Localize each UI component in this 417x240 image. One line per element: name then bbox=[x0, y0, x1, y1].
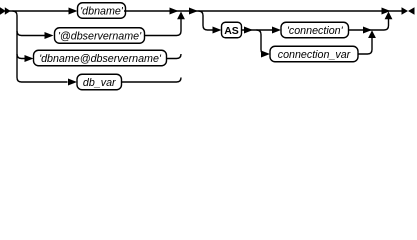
terminal 'dbname@dbservername' bbox=[34, 50, 167, 66]
wire AS branch down bbox=[199, 11, 214, 30]
variable db_var bbox=[77, 74, 122, 90]
start symbol bbox=[0, 7, 11, 15]
wire left branch vertical bbox=[13, 11, 22, 82]
wire row4 to merge bbox=[122, 78, 182, 83]
svg-text:'dbname@dbservername': 'dbname@dbservername' bbox=[39, 53, 162, 65]
arrow main before AS branch bbox=[189, 8, 198, 15]
wire connection to merge bbox=[349, 29, 373, 31]
wire branch to row3 bbox=[17, 54, 26, 59]
svg-text:'@dbservername': '@dbservername' bbox=[58, 30, 142, 42]
wire row1 to junction bbox=[124, 10, 181, 12]
arrow row1 junction bbox=[170, 8, 179, 15]
arrow into @dbservername bbox=[45, 32, 54, 39]
arrow into AS bbox=[213, 27, 222, 34]
wire after AS bbox=[242, 29, 273, 31]
wire row3 to merge bbox=[167, 54, 182, 59]
wire branch to row2 bbox=[17, 31, 45, 36]
keyword AS bbox=[222, 22, 242, 38]
svg-text:connection_var: connection_var bbox=[278, 49, 351, 61]
wire main line middle bbox=[181, 10, 402, 12]
wire branch to connection_var bbox=[257, 30, 266, 54]
svg-text:AS: AS bbox=[224, 25, 239, 37]
arrow into db_var bbox=[68, 79, 77, 86]
wire main line row1 bbox=[10, 10, 70, 12]
arrow merge up AS clause bbox=[385, 12, 393, 20]
svg-text:'dbname': 'dbname' bbox=[80, 5, 124, 17]
wire branch to row4 bbox=[22, 81, 68, 83]
arrow main before end bbox=[382, 8, 391, 15]
arrow connection merge bbox=[363, 27, 372, 34]
arrow into dbname@dbservername bbox=[25, 55, 34, 62]
arrow merge up left group bbox=[177, 12, 185, 20]
terminal 'dbname' bbox=[78, 3, 126, 19]
terminal 'connection' bbox=[281, 22, 349, 38]
wire connection_var to merge bbox=[358, 35, 372, 55]
arrow merge up connection_var bbox=[368, 30, 376, 38]
end symbol bbox=[402, 7, 415, 14]
arrow into connection bbox=[272, 27, 281, 34]
arrow after AS bbox=[244, 27, 253, 34]
svg-text:'connection': 'connection' bbox=[287, 25, 344, 37]
arrow into connection_var bbox=[261, 51, 270, 58]
terminal '@dbservername' bbox=[55, 28, 145, 44]
wire row2 to merge bbox=[145, 15, 182, 36]
variable connection_var bbox=[270, 46, 358, 62]
svg-text:db_var: db_var bbox=[83, 77, 116, 89]
wire AS clause rejoin main bbox=[372, 16, 389, 31]
arrow into dbname bbox=[69, 8, 78, 15]
